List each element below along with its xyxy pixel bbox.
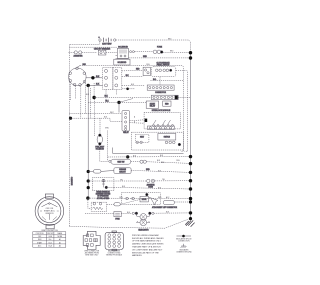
- wire drop from switch area: [93, 83, 95, 98]
- svg-text:SOLENOID: SOLENOID: [118, 62, 128, 64]
- svg-text:RUNNING SYSTEM: RUNNING SYSTEM: [96, 194, 111, 196]
- connector J2 (small, interlock in): [143, 67, 150, 75]
- connector strip P2: [151, 95, 178, 99]
- svg-text:BATTERY: BATTERY: [102, 43, 112, 46]
- svg-text:SOLENOID: SOLENOID: [118, 46, 128, 48]
- key flag: [151, 198, 158, 205]
- svg-text:WIRE CONNECTOR: WIRE CONNECTOR: [84, 250, 100, 252]
- wire solenoid RED to bus: [129, 56, 191, 58]
- brake-clutch switch (dashed box): [152, 61, 176, 76]
- svg-text:SHOWS ALL WIRES AND CABLES: SHOWS ALL WIRES AND CABLES: [132, 237, 164, 240]
- notes paragraph: [132, 234, 164, 257]
- wire row y97: [92, 96, 151, 100]
- svg-text:SERVICED AS PART OF THE: SERVICED AS PART OF THE: [132, 251, 159, 254]
- wire plug drop a: [105, 90, 107, 102]
- ignition switch table: [33, 230, 66, 247]
- hour meter box: [140, 196, 148, 202]
- module box B: [163, 101, 171, 106]
- wire row y113.5: [69, 113, 122, 115]
- wire drop x90: [89, 88, 91, 118]
- svg-text:SWITCH: SWITCH: [164, 137, 171, 139]
- wire light switch out: [107, 200, 140, 206]
- bottom boundary wire: [69, 219, 188, 228]
- fuse F1: [130, 47, 191, 54]
- svg-text:START ACC: START ACC: [44, 210, 56, 213]
- svg-text:DASHED LINES INDICATE WIRES: DASHED LINES INDICATE WIRES: [132, 243, 164, 246]
- svg-text:CONNECTOR: CONNECTOR: [155, 92, 167, 94]
- wire fuel solenoid down: [100, 145, 109, 161]
- accessory capsule: [163, 200, 190, 204]
- wire relay to module b: [130, 122, 145, 125]
- wire plug out row2: [122, 84, 145, 86]
- wire row y171 charge: [87, 168, 191, 174]
- headlamps: [121, 212, 190, 231]
- wire seat box bottom feed: [113, 148, 184, 154]
- svg-text:FUSE: FUSE: [115, 218, 119, 220]
- light switch: [88, 198, 107, 211]
- chassis ground: [185, 217, 194, 227]
- svg-text:OFF ON: OFF ON: [46, 208, 54, 210]
- svg-text:YEL: YEL: [162, 179, 165, 181]
- node below plug: [122, 88, 135, 91]
- svg-text:POSITION: POSITION: [36, 233, 44, 235]
- right bus wire: [190, 53, 192, 219]
- svg-text:CONNECTION: CONNECTION: [178, 241, 190, 243]
- ignition switch S1 (schematic): [69, 64, 87, 86]
- svg-text:B: B: [134, 122, 135, 124]
- node bus-a: [189, 51, 192, 54]
- wire drop x107: [107, 131, 109, 162]
- relay K2: [122, 111, 130, 134]
- connector strip P1: [147, 85, 174, 94]
- wire accessory loop: [80, 66, 184, 152]
- wire switch terminal drop 4: [85, 83, 87, 114]
- svg-text:CIRCUIT: CIRCUIT: [47, 233, 53, 235]
- svg-text:PEDAL SWITCH: PEDAL SWITCH: [157, 63, 170, 66]
- svg-text:CIRCUIT: CIRCUIT: [119, 171, 125, 173]
- wire battery positive to right bus: [116, 40, 191, 53]
- wire row y181: [87, 179, 191, 188]
- wire harness left boundary: [68, 44, 70, 226]
- svg-text:CHASSIS GROUND: CHASSIS GROUND: [176, 251, 192, 254]
- wire relay to module a: [130, 120, 145, 121]
- svg-text:PRINTED WIRING DIAGRAM: PRINTED WIRING DIAGRAM: [132, 234, 159, 237]
- wire ammeter row: [69, 51, 98, 53]
- wire switch to plug row1: [86, 76, 103, 80]
- key switch face S1 detail: [35, 194, 64, 229]
- node bus-f: [189, 179, 192, 182]
- node bus-i: [189, 200, 192, 203]
- svg-text:NONE: NONE: [57, 236, 62, 238]
- seat harness capsule: [109, 159, 191, 164]
- svg-text:B+S: B+S: [49, 242, 52, 244]
- svg-text:INTERLOCK MODULE: INTERLOCK MODULE: [152, 110, 171, 112]
- wire battery negative return: [69, 41, 100, 44]
- wire plug mid row: [122, 69, 143, 77]
- solenoid K1: [116, 46, 129, 58]
- svg-text:WIRE SIDE ONLY: WIRE SIDE ONLY: [85, 255, 99, 257]
- wire seat row to bus: [108, 155, 191, 158]
- wire switch to plug row2 + solid drop: [86, 84, 103, 199]
- node bus-g: [189, 187, 192, 190]
- seat switch box: [132, 132, 184, 150]
- fuel solenoid L1: [94, 99, 104, 151]
- wire interlock drop: [159, 77, 161, 85]
- svg-text:OR COMPONENT AND ARE NOT: OR COMPONENT AND ARE NOT: [132, 248, 163, 251]
- connector face A: [83, 231, 100, 256]
- legend ground: [176, 244, 192, 254]
- module box A: [146, 101, 158, 108]
- solenoid terminal box: [114, 59, 130, 65]
- svg-text:B+L: B+L: [49, 239, 52, 241]
- svg-text:FUSE: FUSE: [157, 47, 163, 49]
- svg-text:THAT ARE PART OF A SWITCH: THAT ARE PART OF A SWITCH: [132, 246, 161, 249]
- wire row y102: [88, 99, 146, 113]
- wire switch terminal drop 3: [80, 86, 82, 118]
- node bus-d: [189, 162, 192, 165]
- circuit breaker CB1: [94, 47, 117, 55]
- svg-text:N.O.: N.O.: [153, 79, 157, 81]
- wire switch terminal drop 2: [74, 86, 76, 99]
- svg-text:OFF: OFF: [38, 236, 41, 238]
- svg-text:WHEN ENGINE IS: WHEN ENGINE IS: [96, 192, 109, 194]
- wire switch terminal drops: [70, 82, 72, 100]
- svg-text:IGNITION: IGNITION: [45, 213, 54, 215]
- node bus-h: [189, 197, 192, 200]
- node bus-e: [189, 171, 192, 174]
- battery B1: [98, 36, 116, 46]
- svg-text:OF THE MAIN HARNESS ONLY.: OF THE MAIN HARNESS ONLY.: [132, 240, 162, 243]
- svg-text:HARNESS.: HARNESS.: [132, 254, 143, 257]
- svg-text:SOLENOID: SOLENOID: [96, 149, 105, 151]
- svg-text:RELAY: RELAY: [150, 105, 156, 108]
- svg-text:YEL: YEL: [120, 179, 123, 181]
- ammeter M1: [74, 51, 84, 57]
- engine block: [87, 178, 191, 200]
- wire interlock row: [150, 80, 183, 82]
- svg-text:CIRCUIT BREAKER: CIRCUIT BREAKER: [94, 47, 111, 50]
- connector strip P3: [147, 126, 174, 130]
- wire top feed: [69, 46, 117, 48]
- node bus-c: [189, 155, 192, 158]
- node bus-j: [189, 211, 192, 214]
- wire plug drop b: [115, 90, 117, 96]
- wire row y118.2: [69, 117, 122, 122]
- wire strip2 to bus: [178, 96, 190, 98]
- interlock module U1: [144, 110, 180, 129]
- connector J1 (switch plug): [103, 68, 122, 90]
- inline fuse box: [85, 212, 121, 221]
- wire plug to interlock: [122, 69, 143, 72]
- svg-text:RELAY: RELAY: [123, 131, 129, 134]
- wire colour labels: [86, 38, 180, 213]
- svg-text:AMMETER: AMMETER: [74, 54, 84, 57]
- connector face B: [105, 231, 123, 257]
- legend splice: [176, 235, 192, 243]
- svg-text:WHT: WHT: [110, 112, 114, 114]
- node bus-b: [189, 56, 192, 59]
- connector under wires: [122, 193, 161, 205]
- wire row y198: [86, 196, 190, 199]
- svg-text:MAGNETO: MAGNETO: [71, 176, 74, 185]
- wire brake switch to right: [176, 70, 188, 151]
